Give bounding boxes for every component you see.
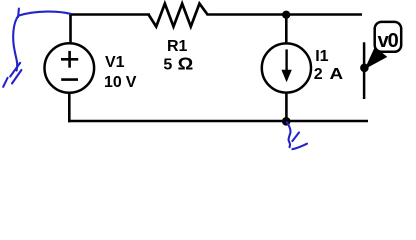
junction node top [282,11,290,19]
current source I1 [262,43,311,92]
V1 circle body [45,43,95,93]
I1 circle body [262,43,311,92]
svg-text:V1: V1 [105,54,125,71]
wire left branch vertical (top rail to V1) [69,13,72,44]
wire top rail left segment [69,13,150,16]
I1 downward current arrow [285,49,287,72]
V1 plus sign [61,58,78,61]
wire bottom rail [68,120,368,123]
wire V1 to bottom rail [68,93,71,123]
svg-text:5: 5 [163,56,172,73]
voltage source V1 [45,43,95,93]
probe flag box v0 [375,22,402,52]
junction node bottom [282,117,291,126]
svg-text:I1: I1 [315,48,328,65]
probe wire stub v0 [363,42,366,99]
annotation blue pen stroke along top-left wire [13,9,70,71]
resistor R1 zigzag [149,4,208,27]
svg-text:A: A [330,64,344,82]
svg-text:V: V [126,74,137,91]
V1 minus sign [61,78,78,81]
wire I1 branch top [285,15,288,45]
svg-text:10: 10 [104,74,122,91]
svg-text:Ω: Ω [178,53,194,73]
annotation blue hatch marks left [3,63,21,87]
svg-text:2: 2 [314,66,323,83]
annotation blue check mark bottom [287,122,307,149]
probe flag pointer [365,47,388,69]
svg-text:v0: v0 [378,30,399,52]
wire top rail right segment [207,13,363,16]
probe node dot [360,64,369,73]
wire I1 branch bottom [285,93,288,122]
